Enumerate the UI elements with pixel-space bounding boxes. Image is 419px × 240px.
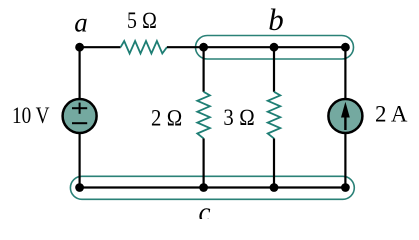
junction dot top of I1	[341, 43, 350, 52]
junction dot bottom of V1	[75, 183, 84, 192]
svg-text:10 V: 10 V	[12, 103, 50, 128]
wire: column of resistor R2 bottom	[203, 138, 205, 187]
resistor R3 3 ohm (vertical zigzag)	[268, 92, 281, 139]
svg-text:b: b	[268, 2, 284, 37]
wire: left column bottom (voltage source down to bottom rail)	[78, 133, 80, 188]
svg-text:a: a	[74, 8, 88, 38]
svg-text:3 Ω: 3 Ω	[223, 105, 255, 130]
junction dot node a	[75, 43, 84, 52]
wire: bottom rail	[80, 186, 346, 188]
junction dot bottom of R2 (node c)	[199, 183, 208, 192]
svg-text:2 Ω: 2 Ω	[151, 105, 183, 130]
svg-text:5 Ω: 5 Ω	[127, 8, 157, 33]
svg-text:c: c	[199, 197, 211, 219]
current source I1 2A (circle with up arrow)	[328, 99, 362, 133]
junction dot bottom of I1	[341, 183, 350, 192]
resistor R1 5 ohm (horizontal zigzag)	[121, 41, 167, 54]
junction dot bottom of R3	[270, 183, 279, 192]
plus sign of V1	[72, 107, 87, 109]
wire: top rail left (node a to resistor R1)	[80, 46, 121, 48]
wire: right column top (node b box down to current source)	[344, 47, 346, 99]
node b enclosure (top rounded box)	[196, 36, 354, 60]
junction dot top of R3 (node b)	[270, 43, 279, 52]
wire: column of resistor R3 top	[273, 47, 275, 92]
resistor R2 2 ohm (vertical zigzag)	[197, 92, 210, 139]
arrow of I1	[344, 112, 346, 130]
wire: right column bottom (current source down to bottom rail)	[344, 133, 346, 188]
junction dot top of R2	[199, 43, 208, 52]
wire: column of resistor R3 bottom	[273, 138, 275, 187]
wire: left column top (node a down to voltage source)	[78, 47, 80, 99]
node c enclosure (bottom rounded box)	[70, 176, 354, 199]
minus sign of V1	[72, 122, 87, 124]
wire: column of resistor R2 top	[203, 47, 205, 92]
voltage source V1 10V (circle with plus/minus)	[63, 99, 97, 133]
wire: top rail right (resistor R1 to node b box and current source column)	[167, 46, 346, 48]
svg-text:2 A: 2 A	[375, 102, 408, 127]
